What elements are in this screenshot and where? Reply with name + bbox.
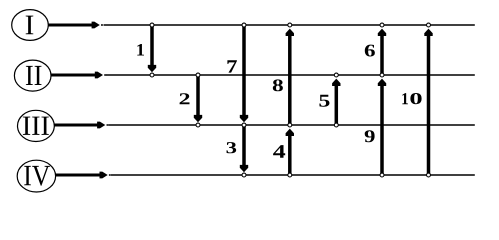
- state circle III: [18, 110, 55, 141]
- label 9: [365, 130, 375, 142]
- label 7: [227, 60, 236, 72]
- label 6: [365, 45, 375, 57]
- transition arrow 3 (III to IV, down) (head): [240, 165, 248, 172]
- node line II / arrow 1: [150, 73, 154, 77]
- level line IV: [111, 174, 475, 176]
- transition arrow 8 (III to I, up) (head): [286, 29, 294, 36]
- numeral III: [23, 117, 49, 135]
- label 10 digit 1: [402, 93, 408, 104]
- source arrow I (head): [92, 22, 100, 29]
- transition arrow 2 (II to III, down) (head): [194, 115, 202, 122]
- level line I: [104, 24, 475, 26]
- node line I / arrow 1: [150, 23, 154, 27]
- source arrow III (tick past head): [107, 124, 109, 126]
- transition arrow 1 (I to II, down) (head): [148, 65, 156, 72]
- level line III: [109, 124, 475, 126]
- transition arrow 6 (II to I, up) (shaft): [380, 33, 384, 73]
- label 3: [226, 142, 236, 153]
- numeral II: [26, 66, 42, 85]
- node line III / arrow 5: [334, 123, 338, 127]
- node line I / arrow 6: [380, 23, 384, 27]
- level line II: [106, 74, 475, 76]
- transition arrow 6 (II to I, up) (head): [378, 29, 386, 36]
- node line IV / arrow 4: [288, 173, 292, 177]
- node line I / arrow 8: [288, 23, 292, 27]
- state circle II: [14, 60, 51, 91]
- state circle IV: [17, 160, 55, 192]
- node line I / arrow 10: [427, 23, 431, 27]
- numeral IV: [24, 166, 50, 186]
- source arrow II (head): [95, 72, 103, 79]
- label 2: [180, 93, 190, 104]
- transition arrow 7 (I to III, down) (shaft): [242, 27, 246, 118]
- source arrow II (shaft): [51, 74, 98, 77]
- label 5: [319, 95, 329, 107]
- source arrow II (tick past head): [104, 74, 106, 76]
- transition arrow 10 (IV to I, up) (shaft): [427, 33, 431, 173]
- transition arrow 5 (III to II, up) (head): [332, 79, 340, 86]
- label 1: [137, 44, 144, 56]
- transition arrow 4 (IV to III, up) (head): [286, 129, 294, 136]
- transition arrow 7 (I to III, down) (head): [240, 115, 248, 122]
- node line III / arrow 2: [196, 123, 200, 127]
- source arrow III (head): [97, 122, 105, 129]
- node line IV / arrow 3: [242, 173, 246, 177]
- label 10 digit 0: [410, 93, 421, 104]
- transition arrow 8 (III to I, up) (shaft): [288, 33, 292, 123]
- node line I / arrow 7: [242, 23, 246, 27]
- label 4: [273, 145, 285, 158]
- source arrow I (tick past head): [101, 24, 103, 26]
- source arrow IV (head): [100, 172, 108, 179]
- transition arrow 9 (IV to II, up) (head): [378, 79, 386, 86]
- node line IV / arrow 10: [427, 173, 431, 177]
- node line III / arrows 7,3: [242, 123, 246, 127]
- transition arrow 3 (III to IV, down) (shaft): [242, 127, 246, 168]
- transition arrow 4 (IV to III, up) (shaft): [288, 133, 292, 173]
- transition arrow 10 (IV to I, up) (head): [424, 29, 432, 36]
- node line IV / arrow 9: [380, 173, 384, 177]
- label 8: [273, 79, 283, 91]
- node line II / arrow 5: [334, 73, 338, 77]
- transition arrow 9 (IV to II, up) (shaft): [380, 83, 384, 173]
- source arrow IV (tick past head): [109, 174, 111, 176]
- transition arrow 5 (III to II, up) (shaft): [335, 83, 339, 123]
- node line II / arrows 6,9: [380, 73, 384, 77]
- transition arrow 1 (I to II, down) (shaft): [150, 27, 154, 68]
- state circle I: [12, 10, 49, 41]
- source arrow III (shaft): [54, 124, 100, 127]
- numeral I: [26, 16, 34, 35]
- transition arrow 2 (II to III, down) (shaft): [196, 77, 200, 118]
- source arrow IV (shaft): [56, 174, 103, 177]
- node line II / arrow 2: [196, 73, 200, 77]
- node line III / arrows 8,4: [288, 123, 292, 127]
- source arrow I (shaft): [48, 24, 95, 27]
